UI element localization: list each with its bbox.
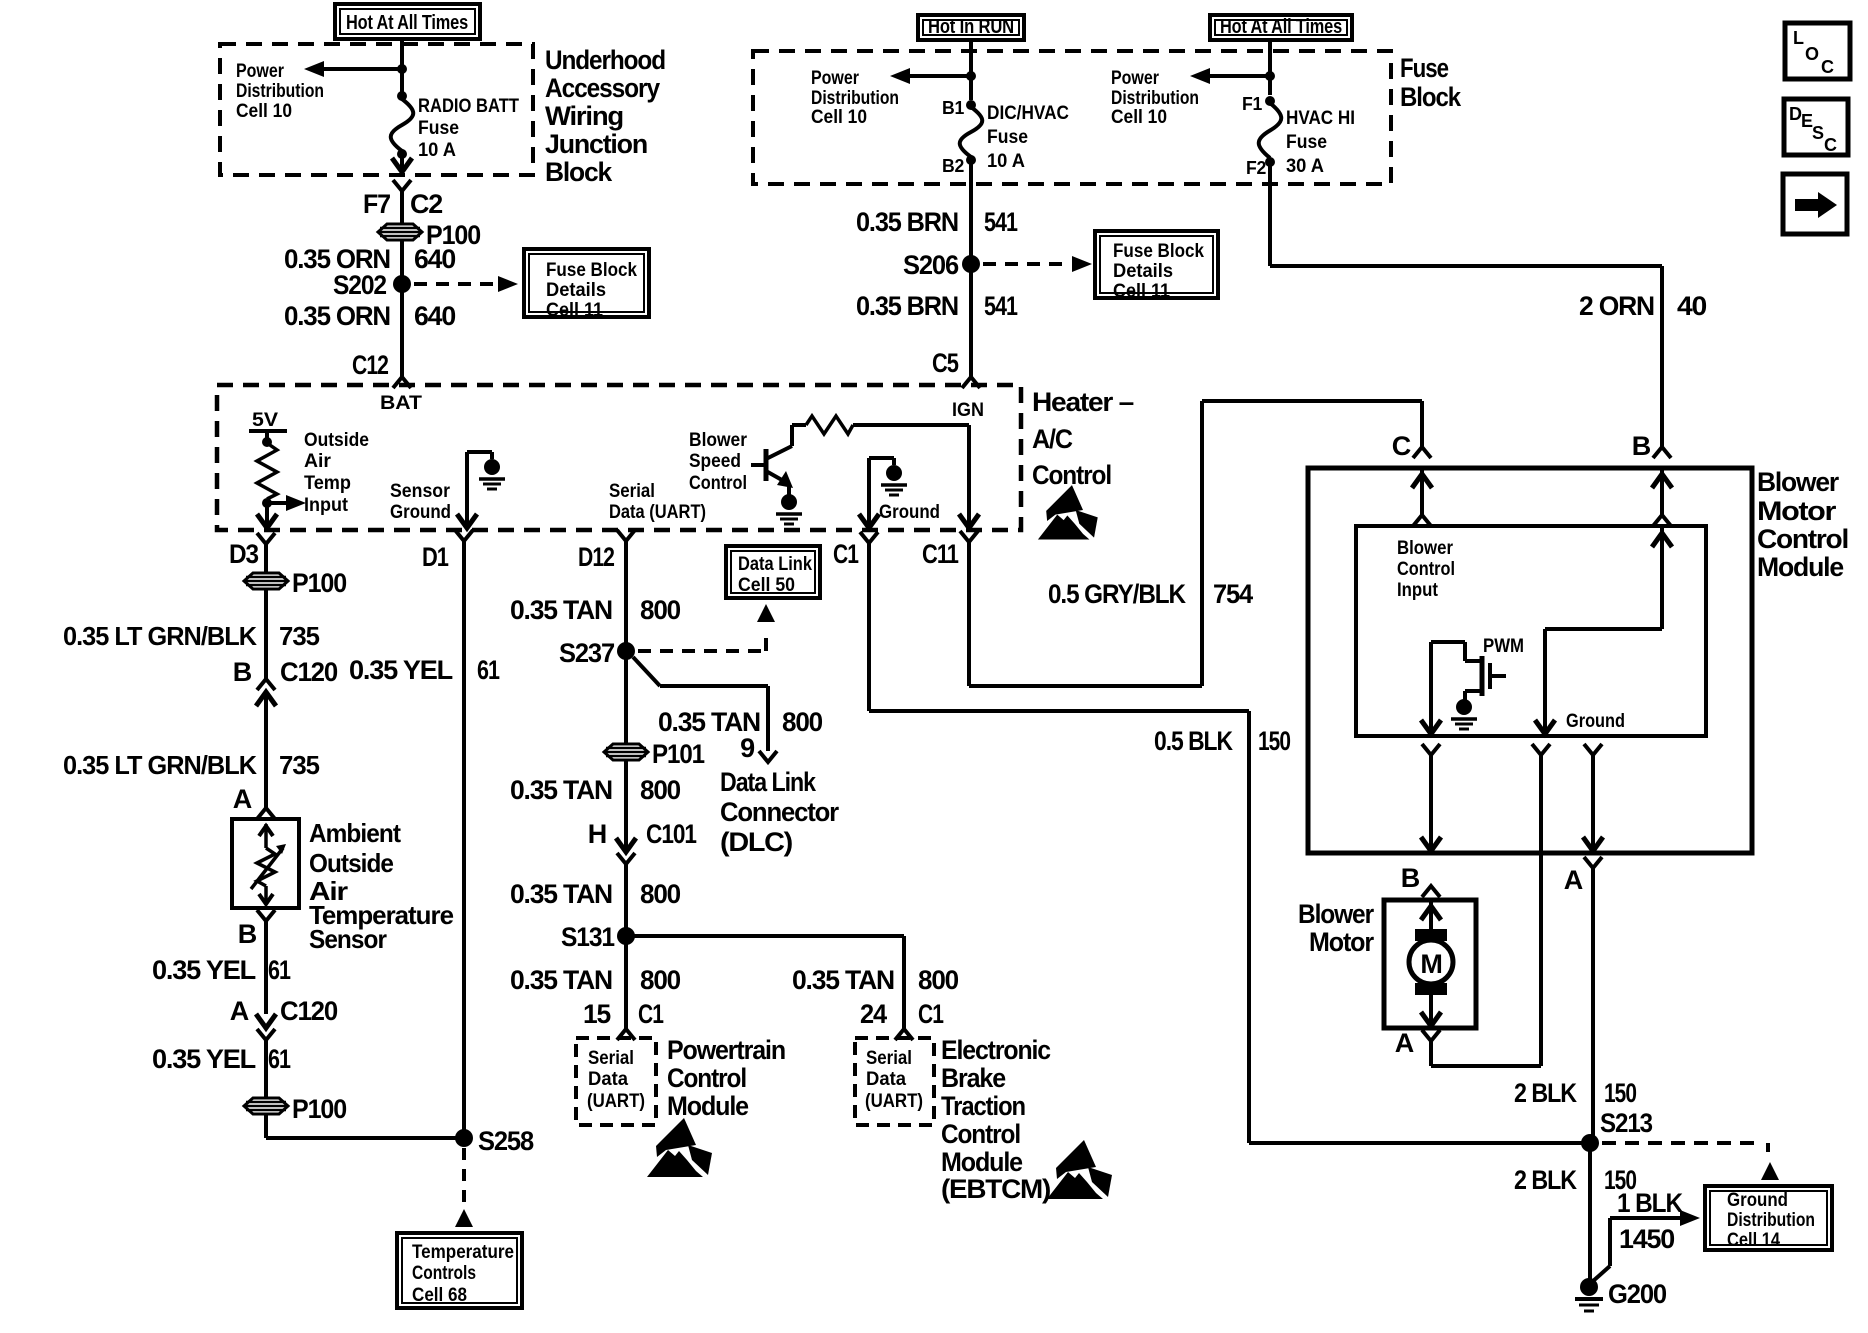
svg-text:Fuse Block: Fuse Block: [1113, 240, 1204, 262]
svg-text:0.35 TAN: 0.35 TAN: [510, 879, 612, 909]
svg-text:9: 9: [740, 733, 755, 763]
svg-text:Data Link: Data Link: [738, 553, 812, 575]
svg-text:Input: Input: [304, 494, 348, 516]
svg-text:150: 150: [1604, 1078, 1636, 1108]
svg-text:Ground: Ground: [1566, 710, 1625, 732]
svg-text:S: S: [1812, 123, 1824, 143]
svg-text:800: 800: [640, 595, 680, 625]
grommet P101: [604, 744, 648, 760]
svg-text:800: 800: [640, 965, 680, 995]
svg-text:0.35 TAN: 0.35 TAN: [510, 595, 612, 625]
PCM serial data dashed box: [576, 1038, 656, 1125]
svg-text:S131: S131: [561, 922, 615, 952]
svg-text:40: 40: [1677, 291, 1706, 321]
svg-text:Control: Control: [1032, 460, 1111, 490]
svg-text:Power: Power: [236, 60, 284, 82]
svg-text:Hot In RUN: Hot In RUN: [928, 16, 1014, 38]
svg-text:Data: Data: [866, 1068, 906, 1090]
svg-text:Fuse: Fuse: [418, 117, 459, 139]
svg-text:735: 735: [279, 621, 320, 651]
branch wire to DLC pin 9: [633, 657, 660, 686]
blower control input inner box: [1356, 526, 1706, 736]
ground PWM source: [1456, 699, 1472, 715]
svg-text:PWM: PWM: [1483, 635, 1524, 657]
wire 0.5 BLK 150 to S213: [867, 543, 871, 711]
fuse block dashed box: [753, 51, 1391, 184]
svg-text:Control: Control: [1397, 558, 1455, 580]
svg-text:H: H: [588, 819, 606, 849]
svg-text:Fuse: Fuse: [1286, 131, 1327, 153]
ground G200: [1580, 1278, 1598, 1296]
EBTCM serial data dashed box: [855, 1038, 934, 1125]
svg-text:Ambient: Ambient: [309, 818, 401, 848]
svg-text:15: 15: [583, 999, 611, 1029]
svg-text:0.5 BLK: 0.5 BLK: [1154, 726, 1233, 756]
splice S258: [455, 1129, 473, 1147]
wire 0.35 BRN 541 lower: [969, 264, 973, 377]
blower motor control module box: [1308, 468, 1752, 853]
svg-text:Details: Details: [546, 279, 606, 301]
svg-text:C: C: [1824, 135, 1837, 155]
svg-text:Module: Module: [667, 1091, 749, 1121]
wire feed from Hot At All Times: [400, 39, 404, 96]
power label box Hot At All Times (left): [335, 4, 480, 39]
svg-text:Sensor: Sensor: [390, 480, 450, 502]
svg-text:B: B: [238, 919, 257, 949]
svg-text:Connector: Connector: [720, 797, 840, 827]
HVAC control head dashed box: [217, 385, 1021, 530]
module internal ground run: [1532, 744, 1550, 755]
svg-text:B: B: [1632, 431, 1651, 461]
wire 0.35 ORN 640 lower: [400, 284, 404, 377]
svg-text:1 BLK: 1 BLK: [1617, 1188, 1684, 1218]
svg-text:C2: C2: [410, 189, 442, 219]
svg-text:Fuse: Fuse: [1400, 53, 1449, 83]
svg-text:2 BLK: 2 BLK: [1514, 1078, 1577, 1108]
svg-text:541: 541: [984, 291, 1018, 321]
svg-text:(UART): (UART): [865, 1090, 923, 1112]
icon box LOC: [1785, 23, 1850, 79]
svg-text:A: A: [1395, 1028, 1414, 1058]
svg-text:2 ORN: 2 ORN: [1579, 291, 1654, 321]
svg-text:Cell 68: Cell 68: [412, 1284, 467, 1306]
svg-text:C: C: [1821, 57, 1834, 77]
svg-text:Cell 10: Cell 10: [1111, 106, 1167, 128]
svg-text:(UART): (UART): [587, 1090, 645, 1112]
input arrow C: [1420, 468, 1424, 515]
svg-text:Sensor: Sensor: [309, 924, 387, 954]
svg-text:0.35 YEL: 0.35 YEL: [349, 655, 453, 685]
svg-text:Control: Control: [667, 1063, 746, 1093]
module terminal A run: [1584, 744, 1602, 755]
svg-text:150: 150: [1258, 726, 1290, 756]
svg-text:P101: P101: [652, 739, 705, 769]
junction block dashed box: [220, 44, 533, 175]
svg-text:A: A: [233, 784, 252, 814]
svg-text:BAT: BAT: [380, 392, 422, 414]
svg-text:61: 61: [268, 955, 291, 985]
svg-text:Accessory: Accessory: [545, 73, 660, 103]
svg-text:(EBTCM): (EBTCM): [941, 1174, 1050, 1204]
svg-text:C: C: [1392, 431, 1411, 461]
ESD symbol EBTCM: [1047, 1140, 1112, 1199]
wire feed Hot At All Times right: [1268, 40, 1272, 95]
svg-text:Cell 10: Cell 10: [236, 100, 292, 122]
svg-text:Cell 50: Cell 50: [738, 574, 795, 596]
svg-text:0.35 LT GRN/BLK: 0.35 LT GRN/BLK: [63, 750, 257, 780]
svg-text:61: 61: [477, 655, 500, 685]
svg-text:Details: Details: [1113, 260, 1173, 282]
wire fuse to block edge: [400, 154, 404, 172]
ambient outside air temperature sensor: [232, 819, 299, 908]
svg-text:Block: Block: [545, 157, 613, 187]
svg-text:F7: F7: [363, 189, 390, 219]
wire blower A to module ground run: [1429, 1041, 1433, 1066]
svg-text:F2: F2: [1246, 158, 1266, 178]
blower motor box: [1384, 900, 1476, 1028]
svg-text:1450: 1450: [1619, 1224, 1674, 1254]
svg-text:Powertrain: Powertrain: [667, 1035, 785, 1065]
svg-text:Control: Control: [941, 1119, 1020, 1149]
svg-text:Serial: Serial: [866, 1047, 912, 1069]
svg-text:Serial: Serial: [588, 1047, 634, 1069]
icon box next arrow: [1783, 174, 1847, 234]
svg-text:P100: P100: [292, 1094, 346, 1124]
fuse RADIO BATT 10A: [397, 91, 407, 101]
svg-text:Electronic: Electronic: [941, 1035, 1051, 1065]
svg-text:24: 24: [860, 999, 887, 1029]
ESD symbol HVAC control: [1038, 485, 1098, 539]
svg-text:Cell 10: Cell 10: [811, 106, 867, 128]
wire IGN feed to C11: [967, 425, 971, 528]
svg-text:0.35 YEL: 0.35 YEL: [152, 955, 256, 985]
grommet P100 (bottom): [244, 1098, 288, 1114]
wire 0.35 TAN 800 (2): [624, 761, 628, 852]
wire S237 to P101: [624, 651, 628, 744]
svg-text:HVAC HI: HVAC HI: [1286, 107, 1355, 129]
svg-text:Blower: Blower: [1757, 467, 1840, 497]
svg-text:A: A: [1564, 865, 1583, 895]
wire C2 to P100: [400, 191, 404, 224]
svg-text:Junction: Junction: [545, 129, 647, 159]
svg-text:Blower: Blower: [1298, 899, 1375, 929]
wire 0.35 BRN 541 upper: [969, 160, 973, 264]
svg-text:800: 800: [918, 965, 958, 995]
svg-text:Blower: Blower: [689, 429, 747, 451]
svg-text:Underhood: Underhood: [545, 45, 665, 75]
svg-text:0.35 TAN: 0.35 TAN: [510, 965, 612, 995]
svg-text:640: 640: [414, 301, 455, 331]
svg-text:F1: F1: [1242, 94, 1262, 114]
svg-text:Temp: Temp: [304, 472, 351, 494]
reference box Fuse Block Details Cell 11 (left): [524, 249, 649, 317]
svg-text:Motor: Motor: [1309, 927, 1375, 957]
svg-text:Data (UART): Data (UART): [609, 501, 706, 523]
svg-text:Serial: Serial: [609, 480, 655, 502]
svg-text:Hot At All Times: Hot At All Times: [346, 12, 468, 34]
svg-text:Speed: Speed: [689, 450, 741, 472]
svg-text:0.35 LT GRN/BLK: 0.35 LT GRN/BLK: [63, 621, 257, 651]
svg-text:(DLC): (DLC): [720, 827, 792, 857]
svg-text:Outside: Outside: [304, 429, 369, 451]
svg-text:61: 61: [268, 1044, 291, 1074]
wire temp input to D3: [265, 499, 269, 528]
svg-text:10 A: 10 A: [987, 150, 1025, 172]
svg-text:C5: C5: [932, 348, 959, 378]
internal B feed to ground leg: [1660, 526, 1664, 629]
svg-text:Temperature: Temperature: [412, 1241, 514, 1263]
svg-text:G200: G200: [1608, 1279, 1666, 1309]
ground wire C1 and chassis ground: [867, 458, 871, 528]
svg-text:Air: Air: [304, 450, 331, 472]
svg-text:541: 541: [984, 207, 1018, 237]
svg-text:P100: P100: [292, 568, 346, 598]
wire 1 BLK 1450 to ground distribution: [1610, 1216, 1680, 1220]
svg-text:754: 754: [1213, 579, 1253, 609]
svg-text:Brake: Brake: [941, 1063, 1006, 1093]
svg-text:D3: D3: [229, 539, 259, 569]
svg-text:C11: C11: [922, 539, 959, 569]
svg-text:A: A: [230, 996, 249, 1026]
svg-text:Power: Power: [1111, 67, 1159, 89]
svg-text:0.5 GRY/BLK: 0.5 GRY/BLK: [1048, 579, 1187, 609]
svg-text:S206: S206: [903, 250, 959, 280]
svg-text:B: B: [233, 657, 252, 687]
svg-text:Cell 11: Cell 11: [1113, 280, 1170, 302]
svg-text:800: 800: [640, 879, 680, 909]
svg-text:Hot At All Times: Hot At All Times: [1220, 16, 1342, 38]
svg-text:30 A: 30 A: [1286, 155, 1324, 177]
svg-text:DIC/HVAC: DIC/HVAC: [987, 102, 1069, 124]
svg-text:B2: B2: [942, 156, 964, 176]
svg-text:Cell 11: Cell 11: [546, 299, 603, 321]
svg-text:0.35 TAN: 0.35 TAN: [792, 965, 894, 995]
svg-text:S213: S213: [1600, 1108, 1653, 1138]
PWM output wire to blower B: [1429, 642, 1433, 736]
svg-text:Traction: Traction: [941, 1091, 1025, 1121]
ground transistor emitter: [781, 494, 797, 510]
input arrow B: [1660, 468, 1664, 515]
svg-text:800: 800: [640, 775, 680, 805]
svg-text:C1: C1: [833, 539, 859, 569]
reference box Data Link Cell 50: [726, 546, 820, 598]
wire P100 to splice S258: [264, 1115, 268, 1138]
svg-text:2 BLK: 2 BLK: [1514, 1165, 1577, 1195]
arrow outside air temp input: [267, 501, 290, 505]
svg-text:Block: Block: [1400, 82, 1462, 112]
svg-text:S258: S258: [478, 1126, 534, 1156]
svg-text:D1: D1: [422, 542, 449, 572]
svg-text:Control: Control: [689, 472, 747, 494]
icon box DESC: [1784, 99, 1848, 155]
node power distribution branch 3: [1265, 71, 1275, 81]
svg-text:C120: C120: [280, 657, 337, 687]
svg-text:C120: C120: [280, 996, 337, 1026]
svg-text:Data: Data: [588, 1068, 628, 1090]
svg-text:B1: B1: [942, 98, 964, 118]
wire 0.35 TAN 800 to PCM: [624, 936, 628, 1029]
grommet P100 (D3): [244, 573, 288, 589]
svg-text:5V: 5V: [252, 409, 278, 431]
svg-text:735: 735: [279, 750, 320, 780]
reference box Fuse Block Details Cell 11 (right): [1095, 231, 1218, 298]
svg-text:C1: C1: [918, 999, 944, 1029]
svg-text:S237: S237: [559, 638, 614, 668]
svg-text:Ground: Ground: [1727, 1189, 1788, 1211]
svg-text:C101: C101: [646, 819, 697, 849]
motor armature: [1429, 900, 1433, 940]
svg-text:M: M: [1420, 949, 1441, 979]
svg-text:A/C: A/C: [1032, 424, 1073, 454]
resistor collector load: [792, 423, 806, 427]
svg-text:Heater –: Heater –: [1032, 387, 1134, 417]
svg-text:Outside: Outside: [309, 848, 393, 878]
svg-text:10 A: 10 A: [418, 139, 456, 161]
svg-text:0.35 YEL: 0.35 YEL: [152, 1044, 256, 1074]
power label box Hot In RUN: [918, 15, 1024, 40]
svg-text:Ground: Ground: [390, 501, 451, 523]
wire 2 BLK 150 to G200: [1588, 1143, 1592, 1279]
reference box Ground Distribution Cell 14: [1705, 1186, 1832, 1250]
svg-text:Data Link: Data Link: [720, 767, 817, 797]
svg-text:Input: Input: [1397, 579, 1438, 601]
svg-text:D12: D12: [578, 542, 614, 572]
svg-text:640: 640: [414, 244, 455, 274]
svg-text:Module: Module: [1757, 552, 1844, 582]
power label box Hot At All Times (right): [1210, 15, 1352, 40]
svg-text:S202: S202: [333, 270, 386, 300]
svg-text:Cell 14: Cell 14: [1727, 1229, 1780, 1251]
svg-text:Ground: Ground: [879, 501, 940, 523]
wire feed Hot In RUN: [969, 40, 973, 100]
ESD symbol PCM: [647, 1118, 712, 1177]
svg-text:Wiring: Wiring: [545, 101, 623, 131]
svg-text:Controls: Controls: [412, 1262, 476, 1284]
svg-text:Fuse Block: Fuse Block: [546, 259, 637, 281]
svg-text:C1: C1: [638, 999, 664, 1029]
svg-text:O: O: [1805, 44, 1819, 64]
svg-text:Control: Control: [1757, 524, 1848, 554]
node power distribution branch: [397, 64, 407, 74]
wire 0.35 ORN 640 upper: [400, 240, 404, 284]
svg-text:0.35 ORN: 0.35 ORN: [284, 301, 390, 331]
reference box Temperature Controls Cell 68: [397, 1233, 522, 1308]
svg-text:Power: Power: [811, 67, 859, 89]
sensor ground wire and chassis ground: [465, 452, 469, 528]
svg-text:Distribution: Distribution: [1727, 1209, 1815, 1231]
svg-text:Fuse: Fuse: [987, 126, 1028, 148]
svg-text:0.35 BRN: 0.35 BRN: [856, 207, 958, 237]
wire 0.5 GRY/BLK 754 to module C: [967, 542, 971, 686]
transistor blower speed control driver: [751, 463, 766, 467]
svg-text:Distribution: Distribution: [236, 80, 324, 102]
svg-text:IGN: IGN: [952, 399, 984, 421]
svg-text:B: B: [1401, 863, 1420, 893]
branch wire S131 to EBTCM: [626, 934, 904, 938]
grommet P100 (top): [378, 224, 422, 240]
wire 0.35 LT GRN/BLK 735 upper: [264, 590, 268, 679]
svg-text:C12: C12: [352, 350, 388, 380]
svg-text:0.35 TAN: 0.35 TAN: [510, 775, 612, 805]
svg-text:0.35 BRN: 0.35 BRN: [856, 291, 958, 321]
svg-text:Module: Module: [941, 1147, 1023, 1177]
svg-text:Motor: Motor: [1757, 496, 1837, 526]
node power distribution branch 2: [966, 71, 976, 81]
svg-text:800: 800: [782, 707, 822, 737]
svg-text:L: L: [1793, 28, 1804, 48]
wire 2 ORN 40 from F2 to blower module B: [1268, 162, 1272, 266]
svg-text:RADIO BATT: RADIO BATT: [418, 95, 519, 117]
connector C2 pin F7: [393, 180, 411, 191]
svg-text:Blower: Blower: [1397, 537, 1453, 559]
